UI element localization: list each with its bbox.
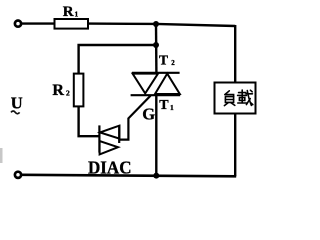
wire: bottom [22, 175, 236, 177]
label 负载 (hand-drawn strokes) [224, 90, 252, 106]
负 [225, 91, 230, 95]
svg-text:T: T [159, 98, 169, 113]
node: junction dot R2 branch [153, 42, 159, 48]
wire: right side vertical lower [234, 114, 236, 177]
triac bottom bar (T1) [131, 94, 181, 96]
DIAC right bar [118, 125, 120, 143]
node: junction dot bottom [153, 173, 159, 179]
resistor R2 [74, 74, 84, 107]
DIAC lower triangle [100, 141, 118, 154]
label U tilde (AC mark) [11, 111, 20, 114]
DIAC left bar [98, 125, 100, 152]
triac left triangle [133, 74, 158, 94]
terminal top-left [15, 21, 21, 27]
resistor R1 [55, 19, 89, 29]
wire: branch to R2 [79, 45, 156, 74]
svg-text:U: U [11, 94, 23, 113]
wire: main vertical from top junction to triac [155, 24, 158, 73]
svg-text:1: 1 [75, 9, 79, 18]
node: junction dot top [153, 21, 159, 27]
wire: triac T1 down to bottom [155, 95, 157, 175]
triac U1: top bar (T2) [132, 72, 180, 74]
wire: right side vertical upper [234, 25, 236, 83]
svg-text:G: G [142, 104, 155, 123]
wire: gate lead [119, 96, 150, 140]
svg-text:R: R [63, 4, 74, 20]
wire: terminal to R1 [22, 22, 55, 24]
svg-text:2: 2 [66, 88, 70, 97]
svg-text:T: T [159, 52, 168, 67]
terminal bottom-left [15, 172, 21, 178]
svg-text:DIAC: DIAC [88, 157, 132, 177]
DIAC upper triangle [100, 126, 119, 139]
wire: R1 to top-right corner [88, 24, 235, 26]
svg-text:1: 1 [170, 103, 174, 112]
svg-text:R: R [52, 82, 64, 99]
载 [239, 92, 246, 94]
triac right triangle [155, 74, 180, 94]
wire: R2 bottom to DIAC [79, 106, 99, 136]
load box (fuzai) [215, 83, 256, 114]
svg-text:2: 2 [171, 59, 175, 67]
